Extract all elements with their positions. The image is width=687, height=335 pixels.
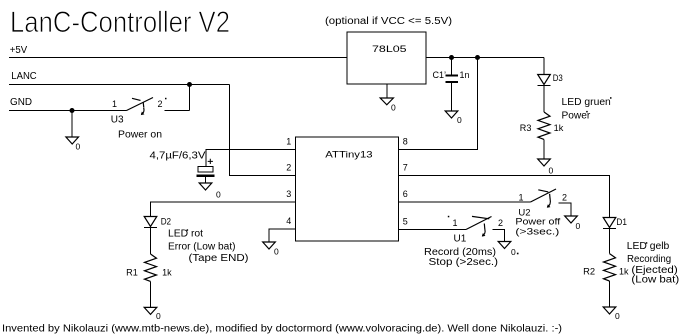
svg-text:2: 2	[498, 218, 503, 228]
label D3	[553, 73, 563, 83]
net GND label	[10, 97, 32, 108]
svg-text:(Low bat): (Low bat)	[631, 275, 679, 286]
wire U2 pin2 stub	[559, 203, 572, 216]
svg-text:Invented by Nikolauzi (www.mtb: Invented by Nikolauzi (www.mtb-news.de),…	[2, 323, 562, 335]
svg-text:U3: U3	[111, 115, 124, 126]
svg-text:4: 4	[286, 216, 291, 226]
pin 2 U3	[158, 99, 163, 109]
wire D2 to R1	[150, 228, 152, 255]
ground R1	[144, 307, 161, 321]
svg-text:1k: 1k	[554, 123, 564, 133]
svg-text:LED gelb: LED gelb	[627, 241, 670, 252]
wire GND rail	[9, 110, 127, 112]
label C1	[433, 70, 447, 80]
svg-text:C1’: C1’	[433, 70, 447, 80]
wire +5V drop to D3	[543, 58, 545, 75]
note: stray tick marks from original raster	[165, 97, 647, 254]
svg-text:LANC: LANC	[11, 71, 36, 82]
svg-text:0: 0	[216, 190, 221, 200]
pin 8 label	[403, 137, 408, 147]
svg-text:5: 5	[403, 217, 408, 227]
wire pin6 to U2	[399, 201, 531, 203]
pin 1 label	[286, 137, 291, 147]
svg-text:0: 0	[457, 115, 462, 125]
svg-text:1k: 1k	[162, 268, 172, 278]
svg-text:7: 7	[403, 163, 408, 173]
wire U3 riser to LANC	[189, 85, 191, 111]
wire D3 to R3	[543, 86, 545, 113]
pin 7 label	[403, 163, 408, 173]
label R1 value 1k	[162, 268, 172, 278]
svg-text:GND: GND	[10, 97, 32, 108]
svg-text:LED rot: LED rot	[168, 229, 203, 240]
diode D1	[603, 218, 616, 229]
wire LANC rail	[9, 84, 230, 86]
svg-text:2: 2	[286, 163, 291, 173]
label U2	[518, 207, 530, 218]
ground R3	[538, 159, 554, 176]
svg-text:1: 1	[286, 137, 291, 147]
label (Tape END)	[189, 253, 249, 264]
svg-text:0: 0	[76, 142, 81, 152]
svg-text:0: 0	[549, 166, 554, 176]
svg-text:(>3sec.): (>3sec.)	[515, 226, 559, 237]
junction C1 tap	[449, 55, 454, 60]
label R3	[520, 123, 532, 133]
pin 2 U1	[498, 218, 503, 228]
svg-text:4,7µF/6,3V: 4,7µF/6,3V	[150, 151, 206, 162]
svg-text:D2: D2	[161, 217, 171, 227]
svg-text:+5V: +5V	[10, 45, 28, 56]
svg-text:R1: R1	[126, 268, 138, 278]
label R1	[126, 268, 138, 278]
ground R2	[603, 307, 620, 321]
label Recording	[627, 254, 671, 265]
wire C1 stem lower	[451, 83, 453, 111]
resistor R3	[538, 112, 550, 139]
label Record (20ms)	[424, 247, 496, 258]
svg-text:8: 8	[403, 137, 408, 147]
note: credits	[2, 323, 562, 335]
wire C1 stem upper	[451, 58, 453, 75]
wire U3 pin2 stub	[165, 110, 190, 112]
svg-text:2: 2	[562, 193, 567, 203]
wire pin2 from LANC	[230, 85, 297, 176]
wire pin7 to D1	[399, 176, 610, 218]
note: title	[10, 6, 230, 39]
svg-text:(optional if VCC <= 5.5V): (optional if VCC <= 5.5V)	[325, 16, 452, 27]
ground 78L05	[380, 98, 396, 113]
wire pin1 to C2	[206, 150, 296, 167]
label R3 value 1k	[554, 123, 564, 133]
svg-text:2: 2	[158, 99, 163, 109]
label (Ejected)	[631, 265, 677, 276]
label Error (Low bat)	[168, 241, 236, 252]
label LED gruen	[562, 97, 611, 108]
svg-text:1: 1	[519, 193, 524, 203]
wire C2 to ground	[205, 177, 207, 183]
label D1	[616, 217, 627, 227]
svg-text:0: 0	[615, 311, 620, 321]
svg-text:D3: D3	[553, 73, 563, 83]
label LED rot	[168, 229, 203, 240]
diode D2	[144, 217, 157, 228]
ground U1	[498, 242, 516, 258]
net +5V label	[10, 45, 28, 56]
wire R2 to ground	[609, 281, 611, 307]
wire pin3 to D2	[151, 202, 297, 217]
label Stop (>2sec.)	[429, 257, 499, 268]
label Power	[562, 110, 591, 121]
label D2	[161, 217, 171, 227]
label R2 value 1k	[619, 267, 629, 277]
pin 1 U3	[112, 99, 117, 109]
svg-text:R2: R2	[583, 267, 595, 277]
label C2 value 4,7uF/6,3V	[150, 151, 206, 162]
svg-text:3: 3	[286, 189, 291, 199]
label U3	[111, 115, 124, 126]
note: optional regulator remark	[325, 16, 452, 27]
wire VCC riser to pin 8	[399, 58, 478, 150]
svg-text:Error (Low bat): Error (Low bat)	[168, 241, 236, 252]
label Power off	[515, 216, 560, 227]
pin 2 U2	[562, 193, 567, 203]
svg-text:U1: U1	[454, 234, 467, 245]
IC U5 ATTiny13	[296, 137, 399, 241]
svg-text:0: 0	[156, 311, 161, 321]
wire D1 to R2	[609, 229, 611, 254]
junction LANC switch tap	[187, 82, 192, 87]
svg-text:0: 0	[391, 103, 396, 113]
wire pin5 to U1	[399, 229, 467, 231]
label U3 function Power on	[118, 130, 162, 141]
label (>3sec.)	[515, 226, 559, 237]
wire U1 pin2 stub	[493, 230, 505, 242]
svg-text:1: 1	[453, 218, 458, 228]
svg-text:1: 1	[112, 99, 117, 109]
wire GND drop to ground	[71, 111, 73, 138]
svg-text:Power on: Power on	[118, 130, 162, 141]
svg-text:D1: D1	[616, 217, 627, 227]
ground C1	[445, 111, 462, 125]
pin 2 label	[286, 163, 291, 173]
svg-text:(Tape END): (Tape END)	[189, 253, 249, 264]
label C1 value 1n	[460, 70, 470, 80]
pin 5 label	[403, 217, 408, 227]
wire pin4 to ground	[269, 229, 296, 242]
pin 1 U2	[519, 193, 524, 203]
pin 6 label	[403, 189, 408, 199]
wire +5V rail	[9, 57, 347, 59]
junction VCC pin8 tap	[475, 55, 480, 60]
svg-text:LanC-Controller V2: LanC-Controller V2	[10, 6, 230, 39]
label R2	[583, 267, 595, 277]
svg-text:Stop (>2sec.): Stop (>2sec.)	[429, 257, 499, 268]
svg-text:78L05: 78L05	[372, 44, 407, 54]
wire +5V output rail	[426, 57, 544, 59]
switch U2	[531, 189, 557, 208]
ground C2	[199, 183, 221, 200]
pin 3 label	[286, 189, 291, 199]
svg-text:R3: R3	[520, 123, 532, 133]
pin 4 label	[286, 216, 291, 226]
svg-text:ATTiny13: ATTiny13	[325, 149, 372, 159]
wire 78L05 ground stub	[386, 84, 388, 98]
label U1	[454, 234, 467, 245]
svg-text:0: 0	[576, 221, 581, 231]
label LED gelb	[627, 241, 670, 252]
junction GND ground tap	[70, 108, 75, 113]
wire R1 to ground	[150, 281, 152, 307]
svg-text:0: 0	[274, 247, 279, 257]
svg-text:Recording: Recording	[627, 254, 671, 265]
capacitor C1	[446, 76, 458, 82]
resistor R1	[145, 254, 157, 281]
ground pin4	[263, 242, 279, 257]
switch U1	[466, 216, 492, 236]
capacitor C2 polarized	[197, 159, 215, 176]
svg-text:0: 0	[511, 247, 516, 257]
diode D3	[538, 75, 551, 86]
ground U2	[565, 216, 581, 231]
ground GND rail	[66, 137, 81, 152]
pin 1 U1	[453, 218, 458, 228]
svg-text:LED gruen: LED gruen	[562, 97, 611, 108]
wire R3 to ground	[543, 139, 545, 159]
svg-text:6: 6	[403, 189, 408, 199]
svg-text:1k: 1k	[619, 267, 629, 277]
svg-text:1n: 1n	[460, 70, 470, 80]
net LANC label	[11, 71, 36, 82]
regulator U4 78L05	[347, 32, 426, 84]
switch U3	[127, 98, 154, 116]
resistor R2	[604, 254, 616, 281]
label (Low bat)	[631, 275, 679, 286]
